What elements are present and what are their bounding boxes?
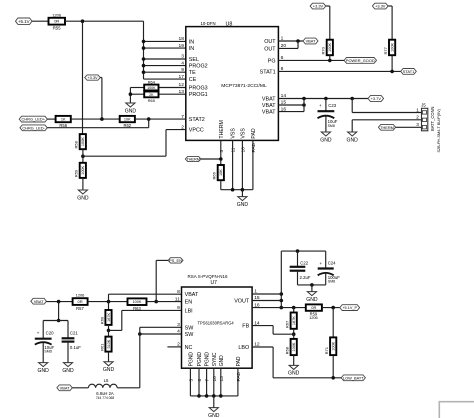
resistor R62 10K [120, 116, 135, 128]
svg-text:C24: C24 [328, 261, 336, 266]
wire R62 to STAT2 pin [135, 117, 186, 121]
ground under R64/R65 [125, 103, 137, 114]
svg-text:VPCC: VPCC [189, 128, 204, 134]
svg-text:R58: R58 [74, 140, 79, 148]
svg-text:R56: R56 [59, 123, 67, 128]
svg-text:5: 5 [219, 150, 225, 153]
svg-text:PAD: PAD [251, 142, 257, 152]
power flag VBAT out [303, 38, 318, 44]
resistor R59 0R 1206 [306, 304, 322, 320]
wire VBAT pin15 [278, 103, 305, 107]
svg-text:187K: 187K [292, 316, 296, 325]
svg-text:1206: 1206 [76, 293, 85, 298]
svg-text:+5.1V_P: +5.1V_P [342, 306, 357, 310]
wire VSS pin10 [241, 140, 243, 189]
svg-text:LBO: LBO [238, 345, 249, 351]
power flag +3.3V left [85, 75, 101, 80]
capacitor C20 10uF [35, 321, 55, 363]
svg-text:SM8: SM8 [328, 279, 335, 283]
wire VBAT pin16 [278, 99, 304, 112]
svg-text:100K: 100K [81, 137, 85, 146]
U7 left pin names and numbers [175, 289, 199, 351]
svg-text:SMD: SMD [44, 350, 52, 354]
wire pin9 TE [142, 70, 186, 74]
svg-text:R60: R60 [99, 316, 104, 324]
wire R64-R65 common [129, 88, 133, 104]
svg-text:GND: GND [62, 368, 74, 374]
svg-text:0R: 0R [54, 19, 59, 24]
svg-text:+3.3V: +3.3V [87, 75, 98, 80]
resistor R58 100K [74, 134, 86, 149]
svg-text:17: 17 [179, 74, 185, 80]
svg-text:+: + [319, 103, 322, 108]
wire VOUT pin1 [252, 293, 281, 295]
svg-text:100K: 100K [133, 300, 142, 304]
capacitor C24 100uF [318, 251, 341, 285]
resistor R57 0R 1206 [73, 293, 88, 311]
svg-text:BATT_CONN: BATT_CONN [430, 106, 435, 131]
resistor R71 100K [324, 308, 336, 378]
svg-text:C23: C23 [328, 103, 336, 108]
power flag +3.3V PG [310, 3, 326, 9]
svg-text:STAT1: STAT1 [260, 69, 276, 75]
svg-text:100K: 100K [147, 86, 156, 90]
wire SW pin3 [140, 326, 182, 328]
junction R60/R61/LBI [107, 329, 111, 333]
svg-text:VSS: VSS [240, 128, 246, 139]
wire gnd stem U8 [241, 190, 243, 197]
junction +3.3V on STAT2 net [100, 117, 104, 121]
wire VBAT to J5 pin1 [352, 99, 421, 113]
svg-text:2: 2 [177, 342, 180, 348]
op-amp U7 TPS61030 body [182, 274, 253, 368]
svg-text:GND: GND [103, 367, 115, 373]
svg-text:GND: GND [306, 297, 318, 303]
wire pin19 IN [142, 46, 186, 50]
ground under U8 [237, 197, 249, 208]
capacitor C22 2.2uF [290, 251, 311, 285]
svg-text:C20: C20 [46, 331, 54, 336]
wire STAT1 pin8 [278, 70, 400, 74]
svg-text:SYNC: SYNC [212, 352, 218, 366]
wire pin17 CE [144, 78, 186, 80]
svg-text:POWER_GOOD: POWER_GOOD [346, 58, 375, 63]
svg-text:SEL: SEL [189, 57, 199, 63]
svg-text:R61: R61 [99, 343, 104, 351]
inductor L5 6.8uH [88, 378, 117, 400]
junction node +5V rail [81, 19, 85, 23]
svg-text:1: 1 [416, 107, 419, 112]
capacitor C21 0.1uF [62, 321, 82, 363]
wire gnd stem caps [311, 285, 313, 292]
U8 left pin names and numbers [179, 36, 208, 134]
svg-text:R70: R70 [321, 46, 326, 54]
svg-text:THERM: THERM [186, 157, 200, 162]
wire R66 to VSS bus [220, 180, 222, 190]
svg-text:LOW_BATT: LOW_BATT [343, 375, 364, 380]
svg-text:PROG2: PROG2 [189, 64, 208, 70]
wire VOUT pin16 to R59 [252, 306, 306, 310]
svg-text:R66: R66 [212, 171, 217, 179]
wire VPCC routing [83, 130, 186, 157]
wire R57 to R63 [88, 300, 128, 304]
ground under C22/C24 [306, 292, 318, 303]
svg-text:CHRG_LED+: CHRG_LED+ [22, 117, 46, 122]
ground under R68 [288, 365, 300, 376]
svg-text:VBAT: VBAT [262, 97, 276, 103]
svg-text:GND: GND [347, 137, 359, 143]
resistor R65 2K [130, 92, 185, 103]
svg-text:+: + [320, 261, 323, 266]
wire VBAT to pin8 [109, 294, 182, 301]
resistor R68 100K [285, 334, 297, 365]
svg-text:SW: SW [185, 325, 195, 331]
wire THERM pin [201, 140, 223, 165]
svg-text:100K: 100K [328, 43, 332, 52]
U8 right pin names and numbers [260, 36, 287, 116]
svg-text:0.1uF: 0.1uF [70, 345, 81, 350]
wire U8 ground bus [221, 188, 253, 192]
svg-text:OUT: OUT [264, 46, 276, 52]
wire PG pin6 [278, 59, 344, 63]
svg-text:EN: EN [185, 300, 193, 306]
svg-text:10: 10 [212, 376, 218, 382]
svg-text:10K: 10K [219, 169, 223, 176]
net flag CHRG_LED+ [19, 116, 47, 122]
svg-text:R68: R68 [285, 346, 290, 354]
svg-text:IN: IN [189, 46, 194, 52]
power flag +3.7V [368, 96, 384, 102]
wire +3.3V to R70 [326, 6, 330, 40]
svg-text:+3.3V: +3.3V [313, 4, 324, 9]
wire R56 to R62 [71, 118, 120, 120]
svg-text:187K: 187K [107, 313, 111, 322]
wire U7 ground bus [190, 394, 238, 398]
svg-text:4: 4 [177, 329, 180, 335]
wire PAD pin [252, 140, 254, 189]
svg-text:VBAT: VBAT [185, 292, 199, 298]
svg-text:R65: R65 [148, 98, 155, 103]
svg-text:1K: 1K [61, 118, 66, 122]
resistor R59 100K [74, 163, 86, 178]
svg-text:VOUT: VOUT [234, 299, 250, 305]
svg-text:THERM: THERM [380, 125, 394, 130]
resistor R61 510K [99, 330, 111, 361]
svg-text:11: 11 [175, 296, 180, 302]
svg-text:PG: PG [268, 58, 276, 64]
wire gnd to J5 pin2 [352, 120, 421, 132]
svg-text:R71: R71 [324, 346, 329, 354]
power flag +5.1V_P [340, 305, 360, 311]
power flag VBAT L5 [57, 385, 72, 391]
svg-text:10-DFN: 10-DFN [201, 21, 216, 26]
wire CHRG_LED- to STAT2 node [47, 119, 148, 128]
svg-text:3: 3 [181, 54, 184, 60]
net flag PS_EN [168, 258, 183, 263]
svg-text:R62: R62 [123, 123, 131, 128]
svg-text:S2B-PH-SM4-T BU/P(5V): S2B-PH-SM4-T BU/P(5V) [437, 108, 441, 152]
svg-text:2.2uF: 2.2uF [300, 275, 311, 280]
svg-text:4: 4 [181, 60, 184, 66]
svg-text:R77: R77 [383, 46, 388, 54]
svg-text:8: 8 [177, 289, 180, 295]
resistor R55 0R 1206 [49, 12, 66, 30]
wire cap top bus [281, 249, 325, 253]
wire R63 to EN pin [147, 301, 182, 303]
net flag POWER_GOOD [344, 58, 376, 64]
wire pin3 SEL [142, 57, 186, 61]
wire R59 to ground [82, 178, 84, 190]
resistor R56 1K [56, 116, 71, 128]
svg-text:GND: GND [208, 413, 220, 418]
svg-text:RSA S-PVQFN-N16: RSA S-PVQFN-N16 [188, 274, 229, 279]
svg-text:PGND: PGND [188, 352, 194, 367]
svg-text:MCP73871-2CCI/ML: MCP73871-2CCI/ML [221, 83, 267, 89]
wire VOUT pin15 [252, 300, 281, 302]
net flag CHRG_LED- [20, 125, 47, 131]
svg-text:VSS: VSS [231, 128, 237, 139]
svg-text:11: 11 [231, 147, 237, 152]
svg-text:OUT: OUT [264, 39, 276, 45]
svg-text:TE: TE [189, 70, 196, 76]
wire LBO routing [252, 347, 341, 380]
svg-text:SW: SW [185, 332, 195, 338]
svg-text:PROG3: PROG3 [189, 86, 208, 92]
wire gnd stem U7 [213, 396, 215, 408]
svg-text:R57: R57 [76, 306, 84, 311]
wire SW pin4 [138, 332, 182, 336]
svg-text:19: 19 [179, 43, 185, 49]
resistor R70 100K [321, 40, 333, 56]
svg-text:CHRG_LED-: CHRG_LED- [22, 125, 45, 130]
ground under C21 [62, 363, 74, 374]
resistor R66 10K [212, 165, 224, 180]
svg-text:R59: R59 [74, 169, 79, 177]
svg-text:2: 2 [416, 115, 419, 120]
wire PS_EN to EN [154, 260, 168, 303]
svg-text:J5: J5 [421, 103, 426, 108]
net flag LOW_BATT [341, 375, 365, 381]
svg-text:12: 12 [179, 82, 185, 88]
power flag +3.3V STAT1 [372, 3, 388, 9]
ground under C23 [320, 132, 332, 143]
wire +3.3V to R77 [388, 6, 392, 40]
svg-text:C21: C21 [70, 331, 78, 336]
wire cap branch [43, 302, 68, 323]
U7 right pin names and numbers [234, 289, 260, 351]
capacitor C23 10uF [318, 99, 338, 133]
svg-text:PAD: PAD [251, 128, 257, 139]
wire pin18 IN [142, 40, 186, 44]
svg-text:THERM: THERM [219, 120, 225, 138]
svg-text:744 774 068: 744 774 068 [96, 396, 115, 400]
svg-text:IN: IN [189, 39, 194, 45]
wire LBI routing [109, 310, 182, 330]
svg-text:GND: GND [237, 202, 249, 208]
wire CHRG_LED+ to R56 [47, 118, 55, 120]
svg-text:PGND: PGND [197, 352, 203, 367]
resistor R64 100K [130, 80, 185, 91]
power flag +5.1V [16, 18, 33, 24]
wire R55 to bus [65, 20, 144, 22]
wire bus vertical to U8 inputs [143, 21, 145, 79]
svg-text:100K: 100K [81, 165, 85, 174]
svg-text:GND: GND [320, 137, 332, 143]
wire +5V vertical feed to R58 [82, 21, 84, 134]
svg-text:6: 6 [197, 379, 203, 382]
wire SW to L5 [139, 327, 141, 388]
svg-text:SM8: SM8 [328, 124, 335, 128]
ground under U7 [208, 408, 220, 418]
wire cap bottom bus [298, 283, 326, 287]
svg-text:VBAT: VBAT [262, 103, 276, 109]
svg-text:+5.1V: +5.1V [18, 19, 30, 24]
svg-text:510K: 510K [107, 339, 111, 348]
resistor R63 100K [128, 298, 147, 311]
wire FB routing [252, 326, 294, 335]
power flag VBAT in [31, 298, 47, 304]
svg-text:STAT1: STAT1 [403, 69, 415, 74]
svg-text:GND: GND [38, 368, 50, 374]
svg-text:1206: 1206 [52, 12, 61, 17]
svg-text:STAT2: STAT2 [189, 117, 205, 123]
svg-text:PS_EN: PS_EN [169, 258, 182, 263]
resistor R77 100K [383, 40, 395, 56]
svg-text:5: 5 [188, 379, 194, 382]
net flag THERM right [378, 124, 395, 130]
svg-text:R64: R64 [148, 80, 156, 85]
wire VBAT to L5 [72, 387, 88, 389]
svg-text:PROG1: PROG1 [189, 92, 208, 98]
sheet title block corner [439, 402, 474, 418]
wire NC stub [167, 346, 181, 348]
wire OUT pin1 [278, 39, 303, 43]
resistor R67 187K [285, 308, 297, 335]
svg-text:3: 3 [416, 122, 419, 127]
svg-text:3: 3 [177, 322, 180, 328]
svg-text:+3.3V: +3.3V [375, 4, 386, 9]
wire OUT pin20 [278, 41, 298, 48]
svg-text:10: 10 [240, 147, 246, 153]
svg-text:L5: L5 [104, 378, 109, 383]
svg-text:10K: 10K [124, 118, 131, 122]
svg-text:C22: C22 [300, 261, 308, 266]
wire VSS pin11 [232, 140, 234, 189]
svg-text:100K: 100K [332, 341, 336, 350]
wire R70 to PG [329, 55, 331, 60]
wire R59 to flag [322, 306, 340, 310]
svg-text:+: + [37, 331, 40, 336]
net flag THERM left [185, 156, 201, 161]
svg-text:VBAT: VBAT [262, 110, 276, 116]
svg-text:PAD: PAD [236, 371, 242, 381]
wire VOUT bus vertical [280, 251, 284, 309]
wire THERM to J5 pin3 [396, 126, 422, 128]
ground under R61 [103, 362, 115, 373]
svg-text:13: 13 [179, 89, 185, 95]
wire pin4 PROG2 [142, 64, 186, 68]
svg-text:1206: 1206 [309, 315, 318, 320]
svg-text:VBAT: VBAT [60, 385, 70, 390]
wire L5 to SW [117, 387, 140, 389]
svg-text:9: 9 [181, 67, 184, 73]
svg-text:0R: 0R [78, 299, 83, 304]
svg-text:R67: R67 [285, 320, 290, 328]
resistor R60 187K [99, 302, 111, 331]
ground near J5 [347, 132, 359, 143]
ground under C20 [38, 363, 50, 374]
ground under R59 [77, 190, 89, 201]
wire R77 to STAT1 [391, 55, 393, 71]
wire VBAT pin14 rail [278, 97, 368, 101]
svg-text:GND: GND [288, 371, 300, 377]
connector J5 BATT_CONN [416, 103, 441, 153]
svg-text:+3.7V: +3.7V [371, 96, 382, 101]
svg-text:VBAT: VBAT [34, 299, 44, 304]
svg-text:7: 7 [205, 379, 211, 382]
svg-text:PGND: PGND [205, 352, 211, 367]
U8 bottom pin names and numbers [219, 120, 257, 152]
wire +5.1V to R55 [32, 20, 49, 22]
svg-text:GND: GND [77, 195, 89, 201]
svg-text:13: 13 [219, 376, 225, 382]
svg-text:FB: FB [242, 324, 249, 330]
svg-text:2K: 2K [149, 93, 154, 97]
svg-text:U7: U7 [211, 280, 218, 286]
svg-text:NC: NC [185, 345, 193, 351]
U7 bottom pin names and numbers [188, 352, 242, 382]
svg-text:GND: GND [125, 108, 137, 114]
svg-text:100K: 100K [391, 43, 395, 52]
svg-text:100K: 100K [292, 342, 296, 351]
net flag STAT1 [401, 69, 417, 75]
svg-text:TPS61030RSARG4: TPS61030RSARG4 [198, 320, 235, 325]
junction R58/R59/VPCC [81, 149, 85, 163]
svg-text:PAD: PAD [236, 356, 242, 366]
svg-text:0R: 0R [311, 305, 316, 310]
svg-text:CE: CE [189, 77, 197, 83]
wire VBAT to R57 [47, 300, 73, 304]
svg-text:U8: U8 [226, 21, 233, 27]
svg-text:VBAT: VBAT [306, 39, 316, 44]
svg-text:LBI: LBI [185, 308, 193, 314]
svg-text:18: 18 [179, 36, 185, 42]
wire U7 bottom pin drops [190, 368, 238, 396]
svg-text:GND: GND [219, 355, 225, 367]
junction FB divider [292, 332, 296, 336]
svg-text:R55: R55 [53, 26, 61, 31]
svg-text:9: 9 [177, 305, 180, 311]
op-amp U8 MCP73871 body [186, 21, 279, 140]
wire +3.3V drop [100, 78, 102, 120]
